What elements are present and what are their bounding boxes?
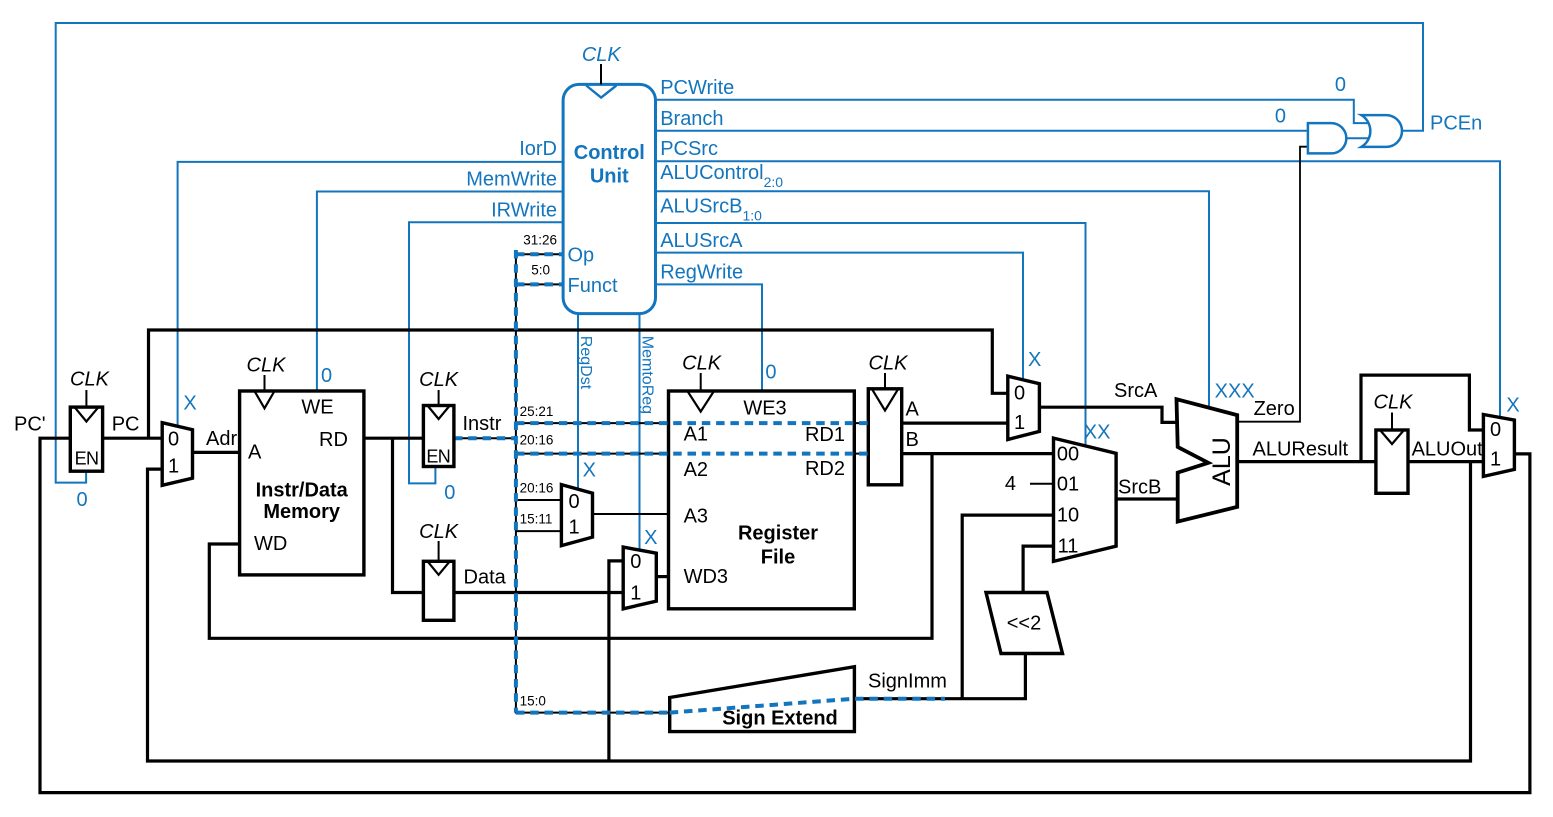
- svg-text:X: X: [1506, 395, 1519, 417]
- wire AND to OR: [1347, 137, 1370, 139]
- wire PC net: [103, 330, 1008, 438]
- svg-text:A2: A2: [684, 459, 708, 481]
- wire RegDst select: [577, 314, 579, 489]
- svg-text:1: 1: [630, 583, 641, 605]
- svg-text:1: 1: [168, 456, 179, 478]
- svg-text:RD2: RD2: [805, 458, 845, 480]
- register file: [669, 352, 855, 608]
- dashes through sign extend: [670, 699, 945, 713]
- svg-text:Op: Op: [568, 245, 595, 267]
- svg-text:0: 0: [444, 482, 455, 504]
- wire IorD: [178, 162, 563, 426]
- register Data: [419, 521, 460, 621]
- memory Instr/Data: [240, 355, 364, 575]
- wire Zero: [1237, 147, 1308, 422]
- wire SrcA: [1039, 407, 1177, 422]
- ALU: [1177, 399, 1238, 521]
- mux PCSrc: [1483, 415, 1514, 477]
- svg-text:20:16: 20:16: [520, 480, 554, 495]
- register Instr: [419, 369, 460, 467]
- svg-text:0: 0: [1275, 106, 1286, 128]
- svg-text:WE: WE: [301, 397, 333, 419]
- svg-text:X: X: [583, 460, 596, 482]
- register A/B: [868, 352, 909, 484]
- bus Funct dashes: [516, 282, 563, 286]
- wire ALUOut net: [148, 462, 1484, 761]
- svg-text:01: 01: [1057, 474, 1079, 496]
- svg-text:SrcA: SrcA: [1114, 380, 1158, 402]
- svg-text:RegWrite: RegWrite: [660, 262, 743, 284]
- bus vertical dashes: [514, 250, 518, 713]
- dashes through register file A2-RD2: [516, 452, 868, 456]
- wire Instr bus black: [454, 253, 868, 712]
- bus 15:0 dashes: [516, 711, 670, 715]
- dashes through register file A1-RD1: [516, 421, 868, 425]
- svg-text:ALUOut: ALUOut: [1412, 439, 1484, 461]
- svg-text:X: X: [183, 393, 196, 415]
- wire IRWrite: [409, 222, 563, 483]
- svg-text:0: 0: [168, 429, 179, 451]
- svg-text:CLK: CLK: [1374, 392, 1415, 414]
- svg-text:5:0: 5:0: [531, 263, 550, 278]
- shifter <<2: [986, 593, 1063, 654]
- svg-text:0: 0: [1335, 74, 1346, 96]
- svg-text:0: 0: [630, 551, 641, 573]
- svg-text:Unit: Unit: [590, 166, 629, 188]
- svg-text:31:26: 31:26: [523, 233, 557, 248]
- wire ALUSrcA: [656, 253, 1024, 381]
- svg-text:CLK: CLK: [419, 369, 460, 391]
- svg-text:CLK: CLK: [247, 355, 288, 377]
- svg-text:A: A: [248, 442, 262, 464]
- svg-text:Register: Register: [738, 523, 818, 545]
- wire A: [902, 422, 1008, 425]
- wire B net: [209, 454, 1053, 639]
- svg-text:EN: EN: [75, 449, 99, 469]
- svg-text:CLK: CLK: [682, 352, 723, 374]
- wire ALUResult net: [1237, 375, 1483, 462]
- wire SrcB: [1116, 497, 1178, 500]
- wire MemWrite: [317, 192, 563, 392]
- wire tap 20:16: [516, 499, 562, 501]
- svg-text:CLK: CLK: [70, 369, 111, 391]
- svg-text:CLK: CLK: [582, 44, 623, 66]
- svg-text:WD: WD: [254, 533, 287, 555]
- mux IorD: [162, 423, 192, 486]
- svg-text:SrcB: SrcB: [1118, 476, 1161, 498]
- wire Data: [454, 591, 623, 594]
- svg-text:ALUResult: ALUResult: [1253, 439, 1349, 461]
- wire PCWrite: [656, 100, 1369, 123]
- svg-text:25:21: 25:21: [520, 404, 554, 419]
- mux SrcA: [1008, 376, 1040, 439]
- bus Instr out dashes: [454, 436, 516, 440]
- svg-text:MemWrite: MemWrite: [466, 168, 557, 190]
- wire RegDst out: [593, 513, 669, 515]
- svg-text:A: A: [906, 399, 920, 421]
- svg-text:0: 0: [765, 362, 776, 384]
- wire const 4: [1030, 483, 1054, 485]
- svg-text:A1: A1: [684, 424, 708, 446]
- svg-text:20:16: 20:16: [520, 433, 554, 448]
- wire SignImm net: [854, 515, 1053, 699]
- wire PCSrc: [656, 161, 1501, 417]
- svg-text:15:0: 15:0: [520, 694, 546, 709]
- svg-text:IorD: IorD: [519, 138, 557, 160]
- svg-text:RD1: RD1: [805, 424, 845, 446]
- svg-text:15:11: 15:11: [520, 511, 553, 526]
- svg-text:0: 0: [568, 491, 579, 513]
- svg-text:XXX: XXX: [1215, 380, 1255, 402]
- svg-text:XX: XX: [1084, 421, 1111, 443]
- svg-text:Sign Extend: Sign Extend: [722, 708, 838, 730]
- svg-text:Control: Control: [574, 142, 645, 164]
- control unit: [563, 44, 655, 314]
- svg-text:11: 11: [1058, 536, 1079, 558]
- svg-text:<<2: <<2: [1007, 613, 1041, 635]
- wire PC' feedback net: [40, 438, 1530, 792]
- svg-text:4: 4: [1005, 473, 1016, 495]
- svg-text:0: 0: [76, 489, 87, 511]
- svg-text:File: File: [761, 547, 795, 569]
- mux MemtoReg: [623, 547, 656, 609]
- wire Branch: [656, 130, 1308, 132]
- svg-text:WD3: WD3: [684, 566, 728, 588]
- svg-text:PC: PC: [112, 414, 140, 436]
- svg-text:1: 1: [1490, 449, 1501, 471]
- svg-text:Memory: Memory: [263, 501, 341, 523]
- svg-text:10: 10: [1057, 505, 1079, 527]
- svg-text:B: B: [906, 429, 919, 451]
- register PC: [70, 369, 111, 472]
- svg-text:RegDst: RegDst: [577, 336, 594, 390]
- svg-text:1: 1: [568, 517, 579, 539]
- svg-text:00: 00: [1057, 444, 1079, 466]
- bus Op dashes: [516, 252, 563, 256]
- svg-text:EN: EN: [426, 447, 450, 467]
- wire MemtoReg select: [639, 314, 641, 551]
- OR gate: [1361, 115, 1402, 147]
- wire PCEn net: [56, 23, 1423, 483]
- wire ALUControl: [656, 191, 1210, 408]
- svg-text:CLK: CLK: [869, 352, 910, 374]
- svg-text:ALUSrcA: ALUSrcA: [660, 230, 743, 252]
- AND gate: [1308, 123, 1346, 153]
- wire Adr: [193, 451, 240, 454]
- wire RD net: [364, 438, 424, 592]
- svg-text:PC': PC': [14, 414, 46, 436]
- svg-text:1: 1: [1014, 412, 1025, 434]
- wire MemtoReg out: [656, 575, 668, 578]
- svg-text:A3: A3: [684, 506, 708, 528]
- mux SrcB: [1054, 438, 1117, 561]
- svg-text:0: 0: [321, 365, 332, 387]
- svg-text:RD: RD: [319, 429, 348, 451]
- svg-text:X: X: [644, 527, 657, 549]
- svg-text:0: 0: [1014, 383, 1025, 405]
- wire RegWrite: [656, 284, 763, 391]
- svg-text:Instr: Instr: [463, 413, 502, 435]
- svg-text:PCSrc: PCSrc: [660, 138, 718, 160]
- svg-text:0: 0: [1490, 419, 1501, 441]
- svg-text:Instr/Data: Instr/Data: [256, 480, 349, 502]
- wire shift out: [1023, 546, 1053, 592]
- svg-text:X: X: [1028, 349, 1041, 371]
- svg-text:Adr: Adr: [206, 428, 237, 450]
- mux RegDst: [561, 485, 592, 546]
- svg-text:PCWrite: PCWrite: [660, 77, 734, 99]
- svg-text:Funct: Funct: [568, 275, 618, 297]
- svg-text:Zero: Zero: [1254, 398, 1295, 420]
- svg-text:SignImm: SignImm: [868, 670, 947, 692]
- svg-text:Data: Data: [464, 566, 507, 588]
- wire tap 15:11: [516, 530, 562, 532]
- svg-text:Branch: Branch: [660, 108, 723, 130]
- svg-text:WE3: WE3: [743, 398, 786, 420]
- svg-text:CLK: CLK: [419, 521, 460, 543]
- svg-text:ALU: ALU: [1208, 437, 1236, 486]
- svg-text:MemtoReg: MemtoReg: [639, 336, 656, 414]
- svg-text:IRWrite: IRWrite: [491, 199, 557, 221]
- register ALUOut: [1374, 392, 1415, 494]
- sign extend: [670, 667, 855, 732]
- svg-text:PCEn: PCEn: [1430, 112, 1482, 134]
- wire ALUSrcB: [656, 223, 1086, 446]
